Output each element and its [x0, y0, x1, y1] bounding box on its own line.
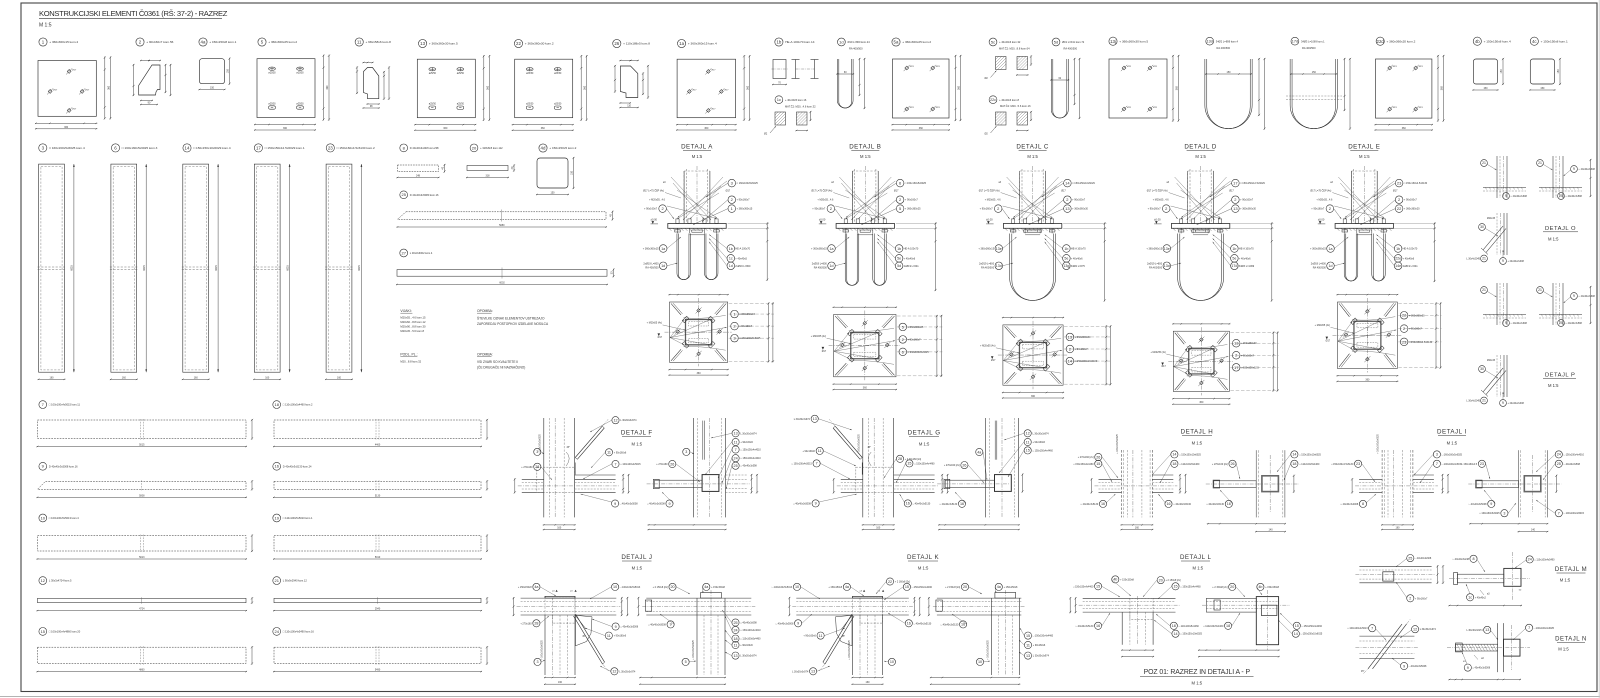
svg-text:ø25/50: ø25/50 [554, 73, 562, 75]
svg-text:□ 150x150x10x6029: □ 150x150x10x6029 [1072, 182, 1095, 185]
svg-text:+ 150x150x8: + 150x150x8 [1004, 586, 1018, 589]
svg-text:160: 160 [557, 527, 562, 530]
item 13d anchor bolt U pair 34d2 [1205, 37, 1266, 129]
svg-text:15: 15 [41, 629, 46, 634]
svg-text:6025: 6025 [286, 265, 289, 271]
svg-text:DETAJL M: DETAJL M [1555, 567, 1587, 573]
detail B anchor plan [811, 306, 943, 390]
svg-text:5013: 5013 [139, 556, 145, 559]
detail O corner top-right [1537, 156, 1596, 198]
svg-text:21: 21 [1482, 161, 1486, 165]
svg-text:ø25/50: ø25/50 [296, 72, 304, 74]
svg-text:4b: 4b [1475, 39, 1480, 44]
detail H title [1181, 429, 1214, 446]
svg-text:16: 16 [1096, 624, 1100, 628]
detail O corner top-left [1481, 156, 1528, 199]
svg-text:□ 110x100x5x4460 kom.2: □ 110x100x5x4460 kom.2 [283, 403, 313, 407]
svg-text:±0.00: ±0.00 [819, 217, 826, 221]
svg-text:+ 360x360x15 kom.4: + 360x360x15 kom.4 [688, 42, 717, 46]
svg-text:M 1:5: M 1:5 [632, 442, 643, 447]
svg-text:+ 270x160: + 270x160 [521, 466, 533, 469]
svg-text:DETAJL B: DETAJL B [849, 144, 881, 151]
mini details vertical dims [1589, 159, 1591, 324]
svg-text:16: 16 [961, 623, 965, 627]
svg-text:+ 318x8x5 kom.112: + 318x8x5 kom.112 [480, 146, 503, 150]
svg-text:5e: 5e [1232, 257, 1236, 261]
svg-text:L 30x30x3x974: L 30x30x3x974 [792, 670, 809, 673]
svg-text:2xØ19 L=800: 2xØ19 L=800 [812, 262, 828, 265]
svg-text:Ø17 L=75 ČEP (4x): Ø17 L=75 ČEP (4x) [1147, 190, 1168, 193]
svg-text:+ 160x160x5x6025: + 160x160x5x6025 [987, 640, 989, 660]
svg-text:45°: 45° [1463, 661, 1466, 663]
svg-text:18: 18 [1172, 624, 1176, 628]
svg-text:+ 360x360x15: + 360x360x15 [978, 248, 994, 251]
svg-text:24: 24 [1557, 453, 1561, 457]
svg-text:+ 90x160x7: + 90x160x7 [1072, 199, 1086, 202]
svg-text:+ 360x360x30: + 360x360x30 [1241, 342, 1257, 345]
svg-text:7: 7 [816, 462, 818, 466]
svg-text:26: 26 [614, 41, 619, 46]
item 4d plate 150x150x5 [536, 144, 577, 195]
svg-text:□ 110x100x4x5490: □ 110x100x4x5490 [1534, 558, 1555, 561]
svg-text:D 40x40x3x248 kom.238: D 40x40x3x248 kom.238 [410, 146, 439, 150]
svg-text:+ 90x160x6: + 90x160x6 [803, 635, 816, 638]
svg-text:4724: 4724 [139, 608, 145, 611]
svg-text:M20x45...5.6 kom.8: M20x45...5.6 kom.8 [400, 329, 424, 333]
svg-text:+ 150x150x8 kom.1: + 150x150x8 kom.1 [1541, 39, 1568, 43]
svg-text:+ M20x55 (4x): + M20x55 (4x) [1315, 324, 1331, 327]
svg-text:□ 100x100x5x5013: □ 100x100x5x5013 [620, 586, 641, 589]
svg-text:5e: 5e [897, 257, 901, 261]
svg-text:□ 150x150x4x4460: □ 150x150x4x4460 [1033, 449, 1054, 452]
svg-text:15: 15 [1173, 585, 1177, 589]
svg-text:7: 7 [1558, 512, 1560, 516]
svg-text:ZAPOREDJU POSTOPKOV IZDELAVE N: ZAPOREDJU POSTOPKOV IZDELAVE NOSILCA [477, 322, 549, 326]
svg-text:360: 360 [1402, 127, 1407, 130]
svg-text:□ 150x150x4x4460: □ 150x150x4x4460 [1073, 463, 1094, 466]
svg-text:□ 40x40x2x608: □ 40x40x2x608 [1511, 322, 1528, 325]
item 17 tube column [253, 144, 305, 380]
svg-text:360: 360 [1199, 401, 1204, 404]
svg-text:11: 11 [607, 634, 611, 638]
svg-text:45°: 45° [566, 447, 570, 449]
svg-text:M 1:5: M 1:5 [1027, 154, 1038, 159]
svg-text:11: 11 [734, 643, 738, 647]
svg-text:3: 3 [1503, 512, 1505, 516]
svg-text:□ 160x160x5x6025: □ 160x160x5x6025 [908, 351, 930, 354]
svg-text:±0.00: ±0.00 [1154, 217, 1161, 221]
svg-text:15: 15 [1096, 585, 1100, 589]
svg-text:150: 150 [571, 170, 574, 175]
svg-text:10: 10 [890, 660, 894, 664]
svg-text:5015: 5015 [139, 444, 145, 447]
svg-text:+ 90x160x7: + 90x160x7 [644, 208, 658, 211]
svg-text:5130: 5130 [375, 494, 381, 497]
detail C anchor plan [980, 317, 1112, 399]
svg-text:□ 40x40x3x4008: □ 40x40x3x4008 [1341, 503, 1359, 506]
svg-text:M 1:5: M 1:5 [1548, 237, 1559, 242]
item 5c washer plates 40x40 [985, 38, 1033, 80]
svg-text:ø25/50: ø25/50 [457, 73, 465, 75]
svg-text:Ø17: Ø17 [991, 360, 996, 362]
svg-text:□ 40x40x3x5008: □ 40x40x3x5008 [793, 502, 811, 505]
svg-text:□ 160x160x5x6025: □ 160x160x5x6025 [739, 337, 761, 340]
title KONSTRUKCIJSKI ELEMENTI [39, 9, 228, 18]
svg-text:OPOMBA:: OPOMBA: [477, 309, 493, 313]
svg-text:±0.00: ±0.00 [651, 217, 658, 221]
svg-text:M20...8.8 kom.32: M20...8.8 kom.32 [400, 359, 421, 363]
svg-text:360: 360 [283, 127, 288, 130]
svg-text:ø25/50: ø25/50 [526, 73, 534, 75]
svg-text:□ 100x100x4x5015 kom.11: □ 100x100x4x5015 kom.11 [49, 403, 81, 407]
detail I column-beam cross [1331, 434, 1463, 531]
svg-text:160: 160 [337, 376, 342, 379]
svg-text:24: 24 [1528, 558, 1532, 562]
svg-text:6025: 6025 [143, 265, 146, 271]
notes OPOMBA 2 [477, 353, 525, 370]
detail O title [1543, 226, 1578, 242]
svg-text:26: 26 [670, 462, 674, 466]
svg-text:9: 9 [1467, 666, 1469, 670]
svg-text:M 1:5: M 1:5 [860, 154, 871, 159]
svg-text:11: 11 [357, 40, 362, 45]
svg-text:□ 40x40x2x608: □ 40x40x2x608 [1415, 557, 1432, 560]
svg-text:6025: 6025 [358, 265, 361, 271]
svg-text:□ 100x100x4x5015: □ 100x100x4x5015 [1442, 463, 1463, 466]
svg-text:21: 21 [1482, 399, 1486, 403]
svg-text:1b: 1b [897, 247, 901, 251]
svg-text:1a: 1a [1329, 247, 1333, 251]
svg-text:9: 9 [797, 622, 799, 626]
svg-text:M20x60...8.8 kom.12: M20x60...8.8 kom.12 [400, 320, 426, 324]
svg-text:5a: 5a [894, 40, 899, 45]
svg-text:+ 40x40x6: + 40x40x6 [1239, 257, 1251, 260]
svg-text:M 1:5: M 1:5 [632, 566, 643, 571]
detail F beam to column face [647, 418, 762, 530]
detail P corner mid-right [1537, 283, 1596, 325]
svg-text:□ 40x40x3x5008: □ 40x40x3x5008 [647, 503, 665, 506]
POZ 01 caption [1140, 669, 1254, 686]
svg-text:9: 9 [1502, 401, 1504, 405]
svg-text:22: 22 [1397, 206, 1402, 211]
svg-text:HE-A 100x70: HE-A 100x70 [1239, 248, 1254, 251]
svg-text:360: 360 [326, 85, 329, 90]
svg-text:14: 14 [1172, 453, 1176, 457]
svg-text:20: 20 [1159, 578, 1163, 582]
svg-text:13: 13 [1026, 654, 1030, 658]
svg-text:□ 40x40x3x248: □ 40x40x3x248 [1453, 558, 1470, 561]
item 9 horizontal member [37, 462, 254, 498]
svg-text:M20x55...4.6 kom.15: M20x55...4.6 kom.15 [400, 316, 426, 320]
svg-text:6002: 6002 [499, 282, 505, 285]
svg-text:+ 360x360x30 kom.5: + 360x360x30 kom.5 [429, 42, 458, 46]
svg-text:360: 360 [1365, 378, 1370, 381]
svg-text:360: 360 [107, 85, 110, 90]
detail P corner mid-left [1481, 283, 1528, 326]
notes VIJAKI bolt list [400, 309, 426, 333]
svg-text:OPOMBA:: OPOMBA: [477, 353, 493, 357]
svg-text:M 1:5: M 1:5 [1195, 154, 1206, 159]
svg-text:+ 2 150x8 [2x]: + 2 150x8 [2x] [1212, 586, 1227, 589]
svg-text:1b: 1b [1064, 247, 1068, 251]
svg-text:Ø19 L=641 kom.72: Ø19 L=641 kom.72 [1062, 40, 1085, 44]
item 23 tube column [325, 144, 375, 380]
svg-text:+ 150x150x8: + 150x150x8 [711, 586, 725, 589]
svg-text:+ 90x160x7: + 90x160x7 [737, 199, 751, 202]
svg-text:□ 40x40x3x5130: □ 40x40x3x5130 [1173, 503, 1191, 506]
detail K beam over column with brace mirrored [772, 578, 933, 685]
svg-text:17: 17 [256, 145, 261, 150]
svg-text:+ 160x160x5x6025: + 160x160x5x6025 [1117, 434, 1119, 454]
item 5 plate 360x360x25 slotted [254, 38, 330, 131]
item 8 flat bar 40x40x3x248 [397, 144, 446, 178]
svg-text:15: 15 [907, 462, 911, 466]
svg-text:M 1:5: M 1:5 [692, 154, 703, 159]
svg-text:+ 160x160x5x6025: + 160x160x5x6025 [542, 640, 544, 660]
svg-text:+ 40x40x5 kom.16: + 40x40x5 kom.16 [785, 98, 807, 102]
svg-text:±0.00: ±0.00 [986, 217, 993, 221]
svg-text:4a: 4a [201, 40, 206, 45]
svg-text:□ 150x150x10x6025: □ 150x150x10x6025 [1299, 453, 1321, 456]
svg-text:□ 150x150x4x4010: □ 150x150x4x4010 [740, 449, 761, 452]
svg-text:22e: 22e [1395, 257, 1401, 261]
svg-text:M 1:5: M 1:5 [1447, 441, 1458, 446]
svg-text:□ 160x160x5x6025: □ 160x160x5x6025 [1479, 512, 1500, 515]
svg-text:28: 28 [534, 622, 538, 626]
svg-text:L 30x30x3x974: L 30x30x3x974 [794, 418, 811, 421]
svg-text:7: 7 [1371, 627, 1373, 631]
svg-text:+ 270x160: + 270x160 [520, 622, 532, 625]
svg-text:13j: 13j [1110, 39, 1116, 44]
svg-text:DETAJL K: DETAJL K [907, 554, 940, 561]
svg-text:+ 150x150x8 kom.4: + 150x150x8 kom.4 [1484, 39, 1511, 43]
svg-text:28: 28 [898, 457, 902, 461]
svg-text:+ 98x158x6 kom.8: + 98x158x6 kom.8 [366, 40, 392, 44]
svg-text:22: 22 [516, 41, 521, 46]
svg-text:□ 150x150x10x6029: □ 150x150x10x6029 [1075, 360, 1098, 363]
svg-text:15: 15 [1096, 462, 1100, 466]
svg-text:+ M20x55...4.6: + M20x55...4.6 [817, 198, 834, 201]
svg-text:+ 90x160x6: + 90x160x6 [802, 450, 815, 453]
svg-text:PODL. PL.:: PODL. PL.: [400, 353, 417, 357]
svg-text:13: 13 [733, 654, 737, 658]
svg-text:□ 150x150x12.5x6029 kom.1: □ 150x150x12.5x6029 kom.1 [265, 146, 305, 150]
svg-text:RA 400/500: RA 400/500 [645, 266, 659, 269]
svg-text:□ 160x160x5x6025 kom.3: □ 160x160x5x6025 kom.3 [122, 146, 158, 150]
svg-text:+ 160x160x5x6025: + 160x160x5x6025 [693, 640, 695, 660]
svg-text:DETAJL A: DETAJL A [681, 144, 713, 151]
svg-text:□ 150x100x4x4010: □ 150x100x4x4010 [740, 457, 761, 460]
svg-text:150: 150 [1557, 69, 1560, 74]
svg-text:HE-A 100x70: HE-A 100x70 [1403, 248, 1418, 251]
svg-text:27: 27 [401, 250, 406, 255]
svg-text:(ČE DRUGAČE NI NAZNAČENO): (ČE DRUGAČE NI NAZNAČENO) [477, 365, 525, 370]
svg-text:□ 160x160x5x6025 kom.4: □ 160x160x5x6025 kom.4 [49, 146, 85, 150]
svg-text:7: 7 [735, 448, 737, 452]
svg-text:318: 318 [486, 175, 491, 178]
detail M beam plan [1355, 555, 1444, 602]
svg-text:+ 270x160 [2x]: + 270x160 [2x] [1078, 456, 1094, 459]
svg-text:1b: 1b [729, 247, 733, 251]
svg-text:+ 40x40x5: + 40x40x5 [735, 257, 747, 260]
svg-text:□ 150x160x4.5x6130: □ 150x160x4.5x6130 [1331, 463, 1354, 466]
svg-text:HE-A 100x70: HE-A 100x70 [904, 248, 919, 251]
svg-text:9: 9 [815, 502, 817, 506]
svg-text:160: 160 [1135, 527, 1140, 530]
svg-text:1c: 1c [777, 97, 781, 102]
svg-text:□ 150x150x10x6029 kom.4: □ 150x150x10x6029 kom.4 [193, 146, 231, 150]
svg-text:150: 150 [551, 192, 556, 195]
svg-text:21: 21 [1538, 288, 1542, 292]
svg-text:12: 12 [1413, 628, 1417, 632]
svg-text:+ 150x150x8: + 150x150x8 [1120, 578, 1134, 581]
detail G column-beam section with brace [791, 415, 948, 530]
svg-text:□ 40x40x3x5008: □ 40x40x3x5008 [620, 503, 638, 506]
svg-text:+ 360x360x30: + 360x360x30 [1075, 336, 1091, 339]
svg-text:13d: 13d [1164, 264, 1170, 268]
svg-text:1d: 1d [830, 264, 834, 268]
svg-text:5d: 5d [1054, 39, 1058, 44]
notes OPOMBA 1 [477, 309, 549, 326]
svg-text:25: 25 [1408, 556, 1412, 560]
item 26 plate 110x188x5 [613, 39, 651, 108]
svg-text:L 30x30x3x974: L 30x30x3x974 [1033, 432, 1050, 435]
svg-text:360: 360 [486, 85, 489, 90]
svg-text:+ 360x360x30 kom.5: + 360x360x30 kom.5 [1119, 39, 1148, 43]
svg-text:4b: 4b [1258, 585, 1262, 589]
item 7 horizontal member [37, 401, 254, 448]
svg-text:360: 360 [1176, 86, 1179, 91]
svg-text:15: 15 [1026, 634, 1030, 638]
svg-text:ø25/50: ø25/50 [429, 104, 437, 106]
svg-text:18: 18 [1226, 624, 1230, 628]
svg-text:L 30x30x3x974: L 30x30x3x974 [1420, 628, 1437, 631]
svg-text:1a: 1a [830, 247, 834, 251]
svg-text:21: 21 [274, 578, 279, 583]
svg-text:22: 22 [888, 580, 892, 584]
svg-text:2: 2 [1409, 597, 1411, 601]
item 20 flat bar 318x8 [466, 144, 515, 178]
svg-text:M20x45: M20x45 [1487, 218, 1496, 220]
svg-text:Ø17 L=75 ČEP (4x): Ø17 L=75 ČEP (4x) [811, 190, 832, 193]
svg-text:1d: 1d [661, 264, 665, 268]
item 1 base plate 360x360x15 [35, 38, 111, 130]
svg-text:□ 150x160x4.5x6130: □ 150x160x4.5x6130 [1404, 182, 1428, 185]
svg-text:□ 150x150x4x4460: □ 150x150x4x4460 [1302, 625, 1323, 628]
svg-text:10: 10 [978, 660, 982, 664]
svg-text:360: 360 [541, 127, 546, 130]
svg-text:10: 10 [613, 585, 617, 589]
svg-text:DETAJL N: DETAJL N [1555, 637, 1587, 643]
svg-text:+ 90x160x7: + 90x160x7 [908, 338, 922, 341]
svg-text:Ø17: Ø17 [894, 190, 899, 193]
detail J title [621, 554, 652, 571]
svg-text:M 1:5: M 1:5 [1560, 577, 1571, 582]
svg-text:360: 360 [697, 372, 702, 375]
svg-text:+ 40x40x6 kom.32: + 40x40x6 kom.32 [999, 40, 1021, 44]
svg-text:18: 18 [1172, 462, 1176, 466]
svg-text:11: 11 [1026, 440, 1030, 444]
svg-text:□ 40x40x3x5008: □ 40x40x3x5008 [1409, 665, 1427, 668]
svg-text:□ 150x160x4.5x6130 kom.2: □ 150x160x4.5x6130 kom.2 [337, 146, 375, 150]
detail I beam stub to column block [1461, 450, 1584, 532]
svg-text:8: 8 [1472, 557, 1474, 561]
svg-text:□ 160x160x5x6025: □ 160x160x5x6025 [737, 182, 759, 185]
svg-text:12: 12 [612, 670, 616, 674]
svg-text:DETAJL H: DETAJL H [1181, 429, 1214, 436]
item 1c washer plates 40x40x5 [764, 96, 816, 136]
svg-text:9: 9 [614, 502, 616, 506]
svg-text:L 30x3x6002 kom.4: L 30x3x6002 kom.4 [410, 251, 433, 255]
svg-text:+ 110x188x5 kom.8: + 110x188x5 kom.8 [623, 42, 650, 46]
item 22 plate 360x360x30 slotted [512, 39, 588, 131]
detail M title [1555, 567, 1587, 582]
svg-text:M 1:5: M 1:5 [39, 23, 52, 29]
svg-text:150: 150 [1227, 71, 1232, 74]
svg-text:14: 14 [185, 145, 190, 150]
detail D anchor plan [1150, 323, 1278, 405]
item 6 tube column [110, 144, 158, 380]
svg-text:160: 160 [122, 376, 127, 379]
svg-text:2xØ19 L=800: 2xØ19 L=800 [1147, 262, 1163, 265]
svg-text:+ 90x160x7: + 90x160x7 [980, 208, 994, 211]
svg-text:+ 360x360x15: + 360x360x15 [811, 248, 827, 251]
svg-text:□ 160x160x5x6025: □ 160x160x5x6025 [1442, 453, 1463, 456]
svg-text:□ 40x40x3x5008: □ 40x40x3x5008 [648, 623, 666, 626]
svg-text:13: 13 [420, 41, 425, 46]
svg-text:160: 160 [194, 376, 199, 379]
svg-text:160: 160 [265, 376, 270, 379]
svg-text:1b: 1b [1396, 247, 1400, 251]
svg-text:□ 40x40x3x5008: □ 40x40x3x5008 [1472, 667, 1490, 670]
svg-text:M 1:5: M 1:5 [1192, 441, 1203, 446]
detail P diagonal junction [1466, 355, 1524, 406]
svg-text:□ 100x100x4x5015: □ 100x100x4x5015 [1564, 512, 1585, 515]
item 4b plate 150x150x8 [1472, 37, 1511, 91]
svg-text:+ 40x40x6: + 40x40x6 [904, 257, 916, 260]
item 21 horizontal member [273, 577, 488, 612]
svg-text:+ 90x160x6: + 90x160x6 [740, 441, 753, 444]
svg-text:360: 360 [863, 387, 868, 390]
detail A anchor plan [647, 294, 774, 376]
svg-text:4460: 4460 [375, 444, 381, 447]
svg-text:20: 20 [472, 145, 477, 150]
svg-text:□ 40x40x3x5130: □ 40x40x3x5130 [1076, 625, 1094, 628]
svg-text:M 1:5: M 1:5 [1192, 681, 1203, 686]
item 15 horizontal member [37, 628, 254, 673]
svg-text:+ 270x160 [2x]: + 270x160 [2x] [944, 464, 960, 467]
svg-text:HE-A 100x70 kom.14: HE-A 100x70 kom.14 [785, 40, 815, 44]
svg-text:M20x45: M20x45 [1487, 360, 1496, 362]
svg-text:+ 150x150x5 kom.2: + 150x150x5 kom.2 [549, 146, 576, 150]
svg-text:+ 360x360x15: + 360x360x15 [739, 313, 755, 316]
svg-text:+ 90x160x7: + 90x160x7 [812, 208, 826, 211]
svg-text:17d: 17d [1292, 40, 1298, 44]
svg-text:±0.00: ±0.00 [1318, 217, 1325, 221]
svg-text:23: 23 [1480, 462, 1484, 466]
svg-text:DETAJL D: DETAJL D [1184, 144, 1217, 151]
item 13 plate 360x360x30 slotted [414, 39, 490, 131]
svg-text:16: 16 [1101, 502, 1105, 506]
svg-text:+ 360x360x30: + 360x360x30 [1072, 208, 1088, 211]
svg-text:ø25/50: ø25/50 [268, 104, 276, 106]
svg-text:L 30x3x4724 kom.5: L 30x3x4724 kom.5 [49, 579, 72, 583]
svg-text:14: 14 [1065, 181, 1070, 186]
svg-text:M 1:5: M 1:5 [1359, 154, 1370, 159]
svg-text:3: 3 [1436, 453, 1438, 457]
svg-text:360: 360 [919, 127, 924, 130]
detail N bolt side view [1447, 623, 1555, 680]
